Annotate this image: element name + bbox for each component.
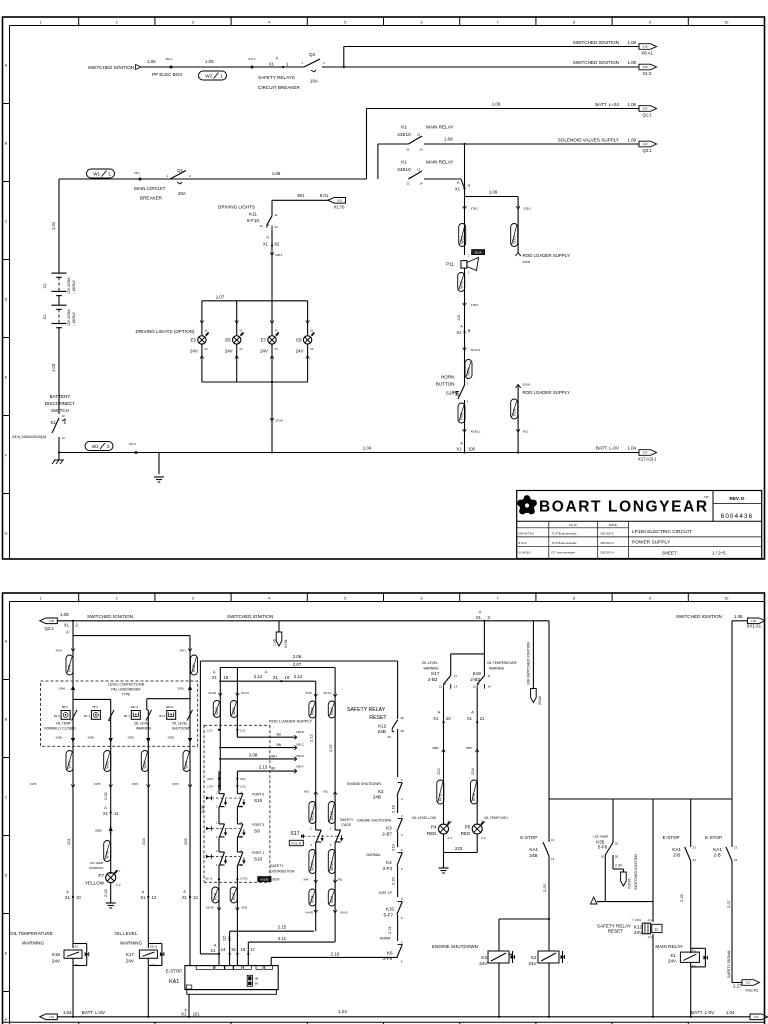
svg-text:2.12: 2.12 bbox=[294, 674, 303, 679]
svg-text:BN: BN bbox=[277, 743, 282, 747]
connector arrow Q2:2 switched ignition bbox=[40, 618, 58, 624]
svg-text:K12: K12 bbox=[634, 925, 643, 930]
cable tag W9/1 bbox=[511, 224, 518, 247]
svg-text:POS.-B: POS.-B bbox=[292, 842, 302, 846]
svg-text:24V: 24V bbox=[190, 349, 198, 354]
svg-text:K1: K1 bbox=[401, 125, 407, 130]
svg-text:13: 13 bbox=[62, 414, 66, 418]
wire 2.16 bbox=[270, 957, 272, 965]
svg-text:901: 901 bbox=[297, 193, 305, 198]
svg-text:A: A bbox=[479, 610, 482, 615]
svg-text:MAIN RELAY: MAIN RELAY bbox=[426, 125, 453, 130]
svg-text:1.04: 1.04 bbox=[63, 1010, 72, 1015]
svg-text:A 2: A 2 bbox=[648, 935, 653, 939]
svg-text:X1: X1 bbox=[275, 329, 279, 333]
horizontal rail y799 bbox=[549, 798, 732, 800]
svg-text:X5:B: X5:B bbox=[241, 906, 247, 910]
svg-text:Q3:1: Q3:1 bbox=[642, 148, 652, 153]
svg-text:W2: W2 bbox=[205, 74, 212, 79]
svg-text:24: 24 bbox=[693, 858, 697, 862]
right rail drop from switched ignition bbox=[548, 621, 550, 842]
svg-text:TC-4TB adj amended: TC-4TB adj amended bbox=[552, 532, 577, 536]
svg-text:X2: X2 bbox=[204, 347, 208, 351]
svg-text:WH: WH bbox=[271, 754, 277, 758]
svg-text:X9:2: X9:2 bbox=[523, 430, 529, 434]
svg-text:3X9:B: 3X9:B bbox=[523, 260, 531, 264]
svg-text:W4/1: W4/1 bbox=[68, 761, 72, 769]
svg-text:X64: X64 bbox=[303, 878, 308, 882]
rod loader supply column lower bbox=[516, 385, 521, 389]
risers below S17 bbox=[315, 842, 317, 931]
svg-text:1.09: 1.09 bbox=[444, 137, 453, 142]
svg-text:12V 225Ah: 12V 225Ah bbox=[67, 277, 71, 294]
wire 2.08 WH bbox=[219, 758, 297, 760]
svg-text:X78:6: X78:6 bbox=[471, 303, 479, 307]
svg-text:2-B7: 2-B7 bbox=[382, 832, 392, 837]
svg-text:2.30: 2.30 bbox=[615, 864, 622, 868]
svg-text:WARNING: WARNING bbox=[136, 727, 152, 731]
POS-B tag bbox=[289, 840, 303, 845]
svg-text:REV. D: REV. D bbox=[730, 496, 746, 501]
svg-text:X2: X2 bbox=[275, 347, 279, 351]
svg-text:K15: K15 bbox=[386, 907, 395, 912]
svg-text:14: 14 bbox=[275, 225, 279, 229]
svg-text:S14: S14 bbox=[446, 391, 455, 396]
connector arrow X1:76 bbox=[328, 198, 346, 204]
svg-text:2.26: 2.26 bbox=[679, 893, 684, 902]
riser 2.12 right bbox=[315, 681, 317, 793]
svg-text:A: A bbox=[460, 325, 463, 329]
svg-text:X 2: X 2 bbox=[116, 883, 121, 887]
svg-text:2.25: 2.25 bbox=[542, 883, 547, 892]
svg-text:X28:2: X28:2 bbox=[275, 253, 283, 257]
svg-text:B Jul 0: B Jul 0 bbox=[519, 541, 527, 545]
svg-text:WARNING: WARNING bbox=[22, 941, 44, 946]
svg-text:DATE: DATE bbox=[609, 523, 617, 527]
wire 1.05 switched ignition feed bbox=[141, 66, 304, 68]
node X1:4 bbox=[464, 144, 466, 189]
svg-text:DISTRIBUTION: DISTRIBUTION bbox=[270, 870, 294, 874]
svg-text:OIL LEVEL: OIL LEVEL bbox=[422, 661, 438, 665]
rod loader supply dashed box bbox=[204, 724, 270, 726]
svg-text:ROD LOADER SUPPLY: ROD LOADER SUPPLY bbox=[269, 719, 312, 724]
svg-text:SWITCHED IGNITION: SWITCHED IGNITION bbox=[573, 60, 619, 65]
svg-text:11: 11 bbox=[488, 674, 491, 678]
svg-text:SHEET: SHEET bbox=[662, 551, 677, 556]
svg-text:X8:10.3: X8:10.3 bbox=[471, 348, 481, 352]
left sensor columns bbox=[72, 621, 74, 747]
svg-text:BUTTON: BUTTON bbox=[436, 382, 455, 387]
svg-text:C: C bbox=[5, 796, 8, 800]
svg-text:X857: X857 bbox=[466, 746, 473, 750]
svg-text:W6/4: W6/4 bbox=[330, 707, 334, 715]
svg-text:1.08: 1.08 bbox=[627, 60, 636, 65]
svg-text:X365: X365 bbox=[87, 736, 94, 740]
svg-text:24: 24 bbox=[419, 148, 423, 152]
sensor B1.1 oil level warning bbox=[131, 711, 140, 720]
cable tag W1/1 bbox=[87, 169, 115, 178]
svg-text:OIL TEMP: OIL TEMP bbox=[56, 722, 71, 726]
wire 2.30 connector bbox=[612, 855, 614, 869]
svg-text:X6:A1: X6:A1 bbox=[323, 691, 331, 695]
svg-text:X362: X362 bbox=[127, 736, 134, 740]
svg-text:1.07: 1.07 bbox=[216, 295, 225, 300]
svg-text:100: 100 bbox=[468, 447, 476, 452]
svg-text:5: 5 bbox=[344, 596, 346, 600]
svg-text:X17:A2(-): X17:A2(-) bbox=[638, 456, 657, 461]
svg-text:X375: X375 bbox=[94, 782, 101, 786]
svg-text:W1: W1 bbox=[93, 172, 100, 177]
svg-text:9.01: 9.01 bbox=[337, 200, 342, 203]
svg-text:88°C: 88°C bbox=[62, 705, 68, 709]
svg-text:23: 23 bbox=[693, 846, 697, 850]
KA1 inner icon bbox=[247, 975, 252, 986]
svg-text:20: 20 bbox=[446, 716, 451, 721]
svg-text:E8: E8 bbox=[296, 338, 302, 343]
svg-text:OIL TEMPERATURE: OIL TEMPERATURE bbox=[10, 931, 53, 936]
svg-text:SWITCH: SWITCH bbox=[51, 408, 69, 413]
svg-text:28: 28 bbox=[401, 729, 405, 733]
svg-text:P4: P4 bbox=[431, 825, 437, 830]
switched ignition drop connector X6:A6 bbox=[532, 621, 534, 689]
svg-text:OIL TEMPERATURE: OIL TEMPERATURE bbox=[487, 661, 517, 665]
svg-text:A: A bbox=[104, 806, 107, 810]
svg-text:1.04: 1.04 bbox=[49, 1016, 54, 1019]
svg-text:24E10: 24E10 bbox=[397, 167, 411, 172]
rod loader supply column upper bbox=[464, 189, 466, 256]
svg-text:2.18: 2.18 bbox=[391, 804, 396, 813]
svg-text:2.27: 2.27 bbox=[733, 984, 742, 989]
svg-text:WARNING: WARNING bbox=[89, 866, 104, 870]
svg-text:A: A bbox=[460, 442, 463, 446]
svg-text:Q2: Q2 bbox=[309, 52, 316, 57]
svg-text:24V: 24V bbox=[634, 930, 643, 935]
svg-text:WARNING: WARNING bbox=[489, 667, 505, 671]
svg-text:X1: X1 bbox=[65, 895, 71, 900]
svg-text:W9/2: W9/2 bbox=[512, 408, 516, 416]
svg-text:NORMAL: NORMAL bbox=[366, 853, 381, 857]
svg-text:13: 13 bbox=[551, 838, 555, 842]
svg-text:2.23: 2.23 bbox=[207, 729, 213, 733]
svg-text:5-F8: 5-F8 bbox=[598, 845, 608, 850]
svg-text:X6:+1: X6:+1 bbox=[205, 877, 213, 881]
svg-text:E7: E7 bbox=[261, 338, 267, 343]
svg-text:7: 7 bbox=[497, 596, 499, 600]
svg-text:19: 19 bbox=[285, 675, 290, 680]
svg-text:P7: P7 bbox=[98, 873, 104, 878]
svg-text:X20:A5: X20:A5 bbox=[628, 878, 632, 889]
svg-text:MAIN RELAY: MAIN RELAY bbox=[426, 160, 453, 165]
svg-text:...OCNW: ...OCNW bbox=[72, 312, 76, 326]
sensor B1.3 bbox=[91, 711, 100, 720]
svg-text:2.27: 2.27 bbox=[746, 982, 751, 985]
svg-text:SAFETY: SAFETY bbox=[270, 864, 284, 868]
svg-text:1.04: 1.04 bbox=[363, 446, 372, 451]
svg-text:BATT. L-0V: BATT. L-0V bbox=[691, 1010, 715, 1015]
svg-text:2.21: 2.21 bbox=[387, 925, 392, 934]
svg-text:SR: SR bbox=[255, 982, 259, 986]
svg-text:KA2:A1: KA2:A1 bbox=[746, 989, 759, 993]
svg-text:MAIN RELAY: MAIN RELAY bbox=[655, 944, 682, 949]
svg-text:Q1:1: Q1:1 bbox=[642, 112, 652, 117]
svg-text:1: 1 bbox=[39, 20, 41, 24]
svg-text:1.06: 1.06 bbox=[492, 102, 501, 107]
wire 2.13 BK bbox=[237, 770, 296, 772]
svg-text:K1: K1 bbox=[670, 953, 676, 958]
svg-text:SWITCHED IGNITION: SWITCHED IGNITION bbox=[227, 614, 273, 619]
svg-text:1.04: 1.04 bbox=[627, 446, 636, 451]
driving lamp E8 bbox=[307, 301, 309, 335]
svg-text:W5/3: W5/3 bbox=[311, 895, 315, 903]
svg-text:E5: E5 bbox=[191, 338, 197, 343]
svg-text:18: 18 bbox=[224, 675, 229, 680]
wire to switched ignition outputs bbox=[322, 66, 344, 68]
svg-text:110: 110 bbox=[457, 315, 461, 321]
svg-text:A: A bbox=[457, 180, 460, 185]
svg-text:D: D bbox=[5, 298, 8, 302]
svg-text:14: 14 bbox=[62, 436, 66, 440]
svg-text:X65:D: X65:D bbox=[296, 754, 304, 758]
svg-text:SAFETY: SAFETY bbox=[340, 818, 354, 822]
svg-text:2-B: 2-B bbox=[714, 853, 721, 858]
svg-text:OIL TEMP HIGH: OIL TEMP HIGH bbox=[484, 816, 508, 820]
svg-text:W9/1: W9/1 bbox=[512, 236, 516, 244]
svg-text:X372: X372 bbox=[132, 782, 139, 786]
svg-text:8: 8 bbox=[573, 596, 575, 600]
svg-text:K4: K4 bbox=[386, 860, 392, 865]
svg-text:X4:A5: X4:A5 bbox=[305, 911, 313, 915]
node X1:18 bbox=[219, 668, 221, 682]
wire 2.07 line bbox=[220, 667, 335, 669]
svg-text:204: 204 bbox=[141, 838, 146, 845]
svg-text:2-B2: 2-B2 bbox=[428, 677, 438, 682]
safety relay reset K12 coil bbox=[652, 799, 654, 922]
svg-text:SAFETY SIGNAL: SAFETY SIGNAL bbox=[727, 950, 731, 978]
svg-text:9.01: 9.01 bbox=[320, 193, 329, 198]
svg-text:4: 4 bbox=[268, 596, 270, 600]
svg-text:2B.16: 2B.16 bbox=[475, 251, 482, 255]
svg-text:1.05: 1.05 bbox=[147, 59, 156, 64]
svg-text:W4/1: W4/1 bbox=[68, 664, 72, 672]
svg-text:KA1:A1: KA1:A1 bbox=[747, 624, 762, 629]
svg-text:1: 1 bbox=[39, 596, 41, 600]
svg-text:ROD LOADER SUPPLY: ROD LOADER SUPPLY bbox=[523, 390, 570, 395]
title table bbox=[517, 527, 629, 529]
svg-text:20A: 20A bbox=[178, 191, 186, 196]
svg-text:X363: X363 bbox=[167, 736, 174, 740]
tag box bbox=[472, 250, 485, 255]
svg-text:24V: 24V bbox=[260, 349, 268, 354]
svg-text:X376: X376 bbox=[30, 782, 37, 786]
svg-text:X1: X1 bbox=[467, 716, 473, 721]
svg-text:A 1: A 1 bbox=[648, 918, 653, 922]
svg-text:X364: X364 bbox=[58, 687, 65, 691]
svg-text:E6: E6 bbox=[225, 338, 231, 343]
KA1 to rail bbox=[188, 994, 190, 1017]
svg-text:X8:1: X8:1 bbox=[134, 171, 140, 175]
svg-text:PORT 6: PORT 6 bbox=[252, 793, 264, 797]
wire 2.15 bbox=[229, 931, 231, 954]
svg-text:YELLOW: YELLOW bbox=[85, 881, 105, 886]
svg-text:1.06: 1.06 bbox=[643, 108, 648, 111]
svg-text:3: 3 bbox=[192, 20, 194, 24]
wire 2.11 bbox=[247, 942, 249, 954]
driving lamp E6 bbox=[236, 301, 238, 335]
svg-text:24B: 24B bbox=[529, 853, 537, 858]
border frame bbox=[3, 593, 765, 1024]
svg-text:ROD LOADER SUPPLY: ROD LOADER SUPPLY bbox=[523, 253, 570, 258]
svg-text:W5/4: W5/4 bbox=[330, 895, 334, 903]
svg-text:12: 12 bbox=[417, 168, 421, 172]
svg-text:K3: K3 bbox=[386, 826, 392, 831]
stack nodes bbox=[218, 778, 220, 780]
page2 bottom ruler band bbox=[3, 1021, 765, 1023]
driving lamp E5 bbox=[201, 301, 203, 335]
svg-text:A: A bbox=[183, 890, 186, 894]
svg-text:24: 24 bbox=[734, 858, 738, 862]
svg-text:SAFETY RELAY: SAFETY RELAY bbox=[347, 707, 386, 713]
svg-text:2.21: 2.21 bbox=[240, 729, 246, 733]
svg-text:24V: 24V bbox=[126, 959, 135, 964]
svg-text:OIL LEVEL LOW: OIL LEVEL LOW bbox=[412, 816, 436, 820]
svg-text:SWITCHED IGNITION: SWITCHED IGNITION bbox=[88, 65, 134, 70]
svg-text:No W: No W bbox=[569, 523, 577, 527]
svg-text:219: 219 bbox=[391, 844, 396, 851]
svg-text:205: 205 bbox=[183, 838, 188, 845]
svg-text:215: 215 bbox=[223, 935, 227, 941]
wire 204 to X1:12 bbox=[147, 790, 149, 948]
svg-text:A: A bbox=[66, 630, 69, 635]
svg-text:A: A bbox=[213, 670, 216, 675]
svg-text:SAFETY RELAYS: SAFETY RELAYS bbox=[258, 75, 295, 80]
svg-text:BOX: BOX bbox=[273, 878, 281, 882]
svg-text:2.X1: 2.X1 bbox=[240, 785, 246, 789]
svg-text:2.16: 2.16 bbox=[331, 952, 340, 957]
svg-text:X1: X1 bbox=[456, 447, 462, 452]
svg-text:3X9:8: 3X9:8 bbox=[523, 383, 531, 387]
svg-text:X28:1: X28:1 bbox=[524, 207, 532, 211]
drop to X1E connector bbox=[278, 621, 280, 632]
svg-text:11: 11 bbox=[275, 213, 278, 217]
svg-text:12: 12 bbox=[473, 685, 477, 689]
svg-text:48mm: 48mm bbox=[131, 705, 139, 709]
svg-text:W5/1: W5/1 bbox=[460, 236, 464, 244]
svg-text:D: D bbox=[5, 874, 8, 878]
svg-text:BU: BU bbox=[277, 733, 282, 737]
svg-text:DISCONNECT: DISCONNECT bbox=[45, 401, 76, 406]
svg-text:LEVEL CONTACTS A/B: LEVEL CONTACTS A/B bbox=[108, 683, 145, 687]
wire 2.06 line bbox=[200, 660, 397, 662]
svg-text:X6:A9: X6:A9 bbox=[208, 691, 216, 695]
svg-text:X1: X1 bbox=[140, 895, 146, 900]
battery G1 bbox=[52, 272, 67, 274]
svg-text:1.06: 1.06 bbox=[627, 102, 636, 107]
svg-text:MAIN CIRCUIT: MAIN CIRCUIT bbox=[134, 186, 166, 191]
svg-text:X1: X1 bbox=[456, 330, 462, 335]
svg-text:X65:C: X65:C bbox=[296, 743, 304, 747]
svg-text:X65:B: X65:B bbox=[296, 730, 304, 734]
svg-text:PAL LINDGRENER: PAL LINDGRENER bbox=[111, 688, 141, 692]
cable tag W5/2 bbox=[458, 273, 465, 292]
cable tag W8/2 bbox=[458, 403, 465, 423]
svg-text:DT - Issue amended: DT - Issue amended bbox=[552, 551, 576, 555]
svg-text:W8/1: W8/1 bbox=[467, 368, 471, 376]
svg-text:K18: K18 bbox=[473, 671, 482, 676]
svg-text:8-F10: 8-F10 bbox=[247, 218, 259, 223]
svg-text:B1.2: B1.2 bbox=[159, 714, 165, 718]
wire 2.12 line bbox=[220, 680, 315, 682]
svg-text:BATT. L+24: BATT. L+24 bbox=[595, 102, 619, 107]
svg-text:A: A bbox=[438, 711, 441, 715]
connector arrow KA1:A1 top right bbox=[731, 621, 733, 847]
svg-text:7: 7 bbox=[497, 20, 499, 24]
svg-text:W51/3: W51/3 bbox=[311, 861, 315, 870]
svg-text:X1: X1 bbox=[212, 675, 218, 680]
svg-text:K17: K17 bbox=[126, 952, 135, 957]
svg-text:1.08: 1.08 bbox=[49, 620, 54, 623]
svg-text:1.04: 1.04 bbox=[754, 1016, 759, 1019]
svg-text:NORM: NORM bbox=[380, 937, 391, 941]
svg-text:X1: X1 bbox=[263, 242, 269, 247]
svg-text:SOLENOID VALVES SUPPLY: SOLENOID VALVES SUPPLY bbox=[558, 138, 619, 143]
svg-text:W7/1: W7/1 bbox=[105, 851, 109, 859]
svg-text:X 2: X 2 bbox=[448, 836, 453, 840]
svg-text:RED: RED bbox=[427, 831, 437, 836]
svg-text:X1: X1 bbox=[64, 623, 70, 628]
svg-text:RESET: RESET bbox=[608, 929, 624, 934]
svg-text:D04 04 P B 0: D04 04 P B 0 bbox=[519, 532, 535, 536]
oil level contacts dashed box bbox=[41, 681, 198, 746]
svg-text:12: 12 bbox=[439, 685, 443, 689]
svg-text:X8:A1: X8:A1 bbox=[641, 50, 653, 55]
svg-text:X1:76: X1:76 bbox=[334, 205, 346, 210]
svg-text:101:2: 101:2 bbox=[129, 442, 136, 446]
svg-text:3: 3 bbox=[192, 596, 194, 600]
ground 2 bbox=[158, 453, 160, 475]
svg-text:21: 21 bbox=[406, 148, 410, 152]
svg-text:K3: K3 bbox=[481, 955, 487, 960]
cable tag W1/2 bbox=[85, 442, 113, 451]
svg-text:X2: X2 bbox=[310, 347, 314, 351]
svg-text:24B: 24B bbox=[378, 729, 386, 734]
svg-text:17: 17 bbox=[250, 947, 255, 952]
bottom rail page2 bbox=[57, 1016, 750, 1018]
svg-text:X5:A5: X5:A5 bbox=[206, 906, 214, 910]
svg-text:A: A bbox=[66, 890, 69, 894]
svg-text:16: 16 bbox=[241, 947, 246, 952]
svg-text:24V: 24V bbox=[52, 959, 61, 964]
wire BU bbox=[236, 730, 238, 738]
battery G2 bbox=[52, 304, 67, 306]
svg-text:4: 4 bbox=[268, 20, 270, 24]
svg-text:X1: X1 bbox=[239, 329, 243, 333]
svg-text:SWITCHED IGNITION: SWITCHED IGNITION bbox=[634, 853, 638, 890]
svg-text:BATTERY: BATTERY bbox=[50, 394, 71, 399]
svg-text:214: 214 bbox=[228, 935, 232, 941]
border frame bbox=[3, 17, 765, 559]
svg-text:X2: X2 bbox=[239, 347, 243, 351]
svg-text:S17: S17 bbox=[290, 831, 299, 837]
svg-text:X 2: X 2 bbox=[481, 836, 486, 840]
svg-text:BREAKER: BREAKER bbox=[140, 196, 163, 201]
svg-text:X72:1: X72:1 bbox=[248, 57, 256, 61]
driving lamp E7 bbox=[271, 301, 273, 335]
sensor B1.2 oil level shutdown bbox=[167, 711, 176, 720]
svg-text:X856: X856 bbox=[432, 746, 439, 750]
svg-text:X1:3: X1:3 bbox=[643, 71, 652, 76]
svg-text:11: 11 bbox=[454, 674, 457, 678]
svg-text:2: 2 bbox=[116, 596, 118, 600]
